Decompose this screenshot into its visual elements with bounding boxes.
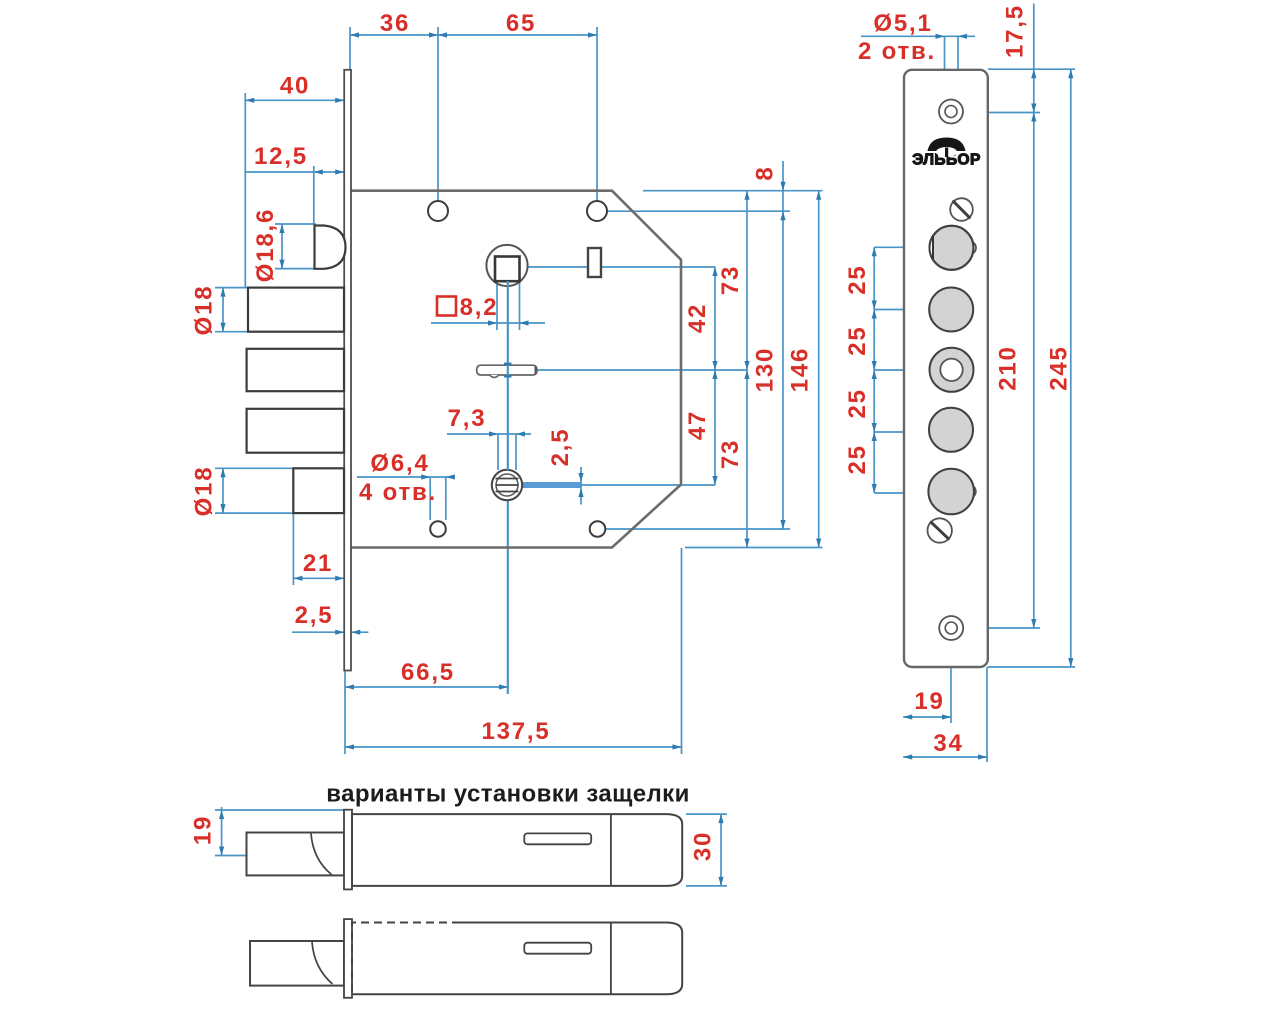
svg-text:12,5: 12,5 — [254, 143, 308, 170]
svg-text:19: 19 — [189, 815, 216, 845]
svg-text:210: 210 — [994, 345, 1021, 390]
svg-text:варианты установки защелки: варианты установки защелки — [326, 780, 689, 807]
svg-text:Ø6,4: Ø6,4 — [370, 450, 429, 477]
svg-text:36: 36 — [380, 10, 410, 37]
svg-text:137,5: 137,5 — [481, 718, 550, 745]
svg-text:2,5: 2,5 — [295, 602, 334, 629]
svg-text:Ø18: Ø18 — [190, 466, 217, 517]
svg-text:25: 25 — [844, 325, 871, 355]
svg-text:25: 25 — [844, 444, 871, 474]
svg-text:Ø18: Ø18 — [190, 285, 217, 336]
svg-text:4 отв.: 4 отв. — [359, 479, 437, 506]
svg-text:17,5: 17,5 — [1001, 4, 1028, 58]
svg-text:34: 34 — [933, 730, 963, 757]
svg-text:245: 245 — [1045, 345, 1072, 390]
svg-text:25: 25 — [844, 264, 871, 294]
svg-text:65: 65 — [506, 10, 536, 37]
svg-text:19: 19 — [914, 688, 944, 715]
svg-text:25: 25 — [844, 388, 871, 418]
svg-text:Ø5,1: Ø5,1 — [873, 10, 932, 37]
svg-text:2,5: 2,5 — [547, 428, 574, 467]
svg-text:8: 8 — [751, 165, 778, 180]
svg-text:146: 146 — [786, 347, 813, 392]
svg-text:130: 130 — [751, 347, 778, 392]
svg-text:Ø18,6: Ø18,6 — [252, 208, 279, 282]
svg-text:73: 73 — [717, 439, 744, 469]
svg-text:42: 42 — [684, 303, 711, 333]
svg-text:8,2: 8,2 — [460, 294, 499, 321]
svg-text:47: 47 — [684, 410, 711, 440]
svg-text:2 отв.: 2 отв. — [858, 38, 936, 65]
svg-text:73: 73 — [717, 265, 744, 295]
svg-text:40: 40 — [280, 72, 310, 99]
svg-text:7,3: 7,3 — [448, 405, 487, 432]
svg-text:21: 21 — [303, 550, 333, 577]
svg-text:30: 30 — [689, 831, 716, 861]
svg-text:66,5: 66,5 — [401, 659, 455, 686]
